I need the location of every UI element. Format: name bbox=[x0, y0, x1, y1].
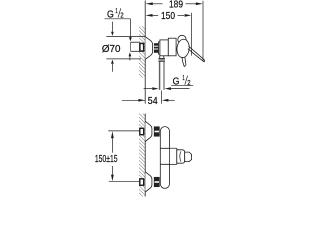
svg-text:1: 1 bbox=[182, 75, 184, 82]
svg-text:150: 150 bbox=[161, 11, 175, 22]
svg-text:1: 1 bbox=[115, 8, 117, 15]
svg-text:150±15: 150±15 bbox=[95, 154, 118, 165]
svg-text:54: 54 bbox=[148, 96, 158, 107]
svg-text:189: 189 bbox=[169, 0, 183, 11]
svg-text:Ø70: Ø70 bbox=[102, 44, 121, 55]
